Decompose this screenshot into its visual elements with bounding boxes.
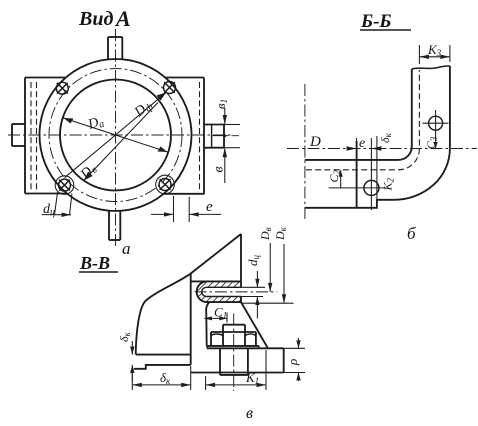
lug hole centerline [195,291,278,293]
svg-text:е: е [359,136,365,151]
vertical pipe left edge [411,69,413,147]
vertical centerline [115,29,117,247]
svg-text:ρ: ρ [285,359,300,366]
pipe break line top [412,66,450,69]
hidden line left 2 [36,82,38,190]
vertical pipe right edge [449,66,451,149]
bolt BL [55,176,74,195]
outer fillet arc [394,149,450,200]
horizontal leg top edge with inner fillet [305,147,412,160]
svg-text:δк: δк [117,331,132,342]
horizontal centerline [8,134,232,136]
svg-text:Dв: Dв [258,227,273,241]
dimension δк left [117,331,135,381]
dimension Дв [241,227,294,303]
lug hatched ring [197,281,241,302]
casing top edge right segment [166,77,204,79]
svg-text:Вид: Вид [78,8,113,30]
bracket left edge [190,274,192,365]
dimension ρ [284,338,305,381]
diameter line Dв [77,103,158,184]
base right edge [283,348,285,372]
hole ext lines right [241,286,265,288]
dimension δк (section) [378,132,393,143]
svg-text:dц: dц [245,255,261,267]
inner wall dashed horizontal [306,70,419,170]
dimension C3 [424,136,439,149]
svg-text:Б-Б: Б-Б [360,11,391,32]
left tab [12,124,25,146]
right edge vertical [240,234,242,281]
casing bottom edge right segment [164,193,205,195]
nut [211,325,256,346]
casing right edge [203,78,205,194]
svg-text:Dк: Dк [273,226,288,241]
svg-text:С2: С2 [327,169,342,182]
svg-text:К3: К3 [427,42,442,58]
neck curve below lug [206,302,209,346]
dimension K3 [419,42,450,64]
bottom tab [109,211,120,240]
diameter line Dф [65,92,167,177]
svg-text:В-В: В-В [79,253,110,273]
flange left face vertical [356,141,358,208]
svg-text:δк: δк [378,132,393,143]
dimension e (section) [357,136,384,176]
dimension C2 [327,169,343,187]
outer contour diagonal [136,234,241,355]
dimension e (view A) [151,196,221,222]
lug right edge segments [240,281,242,287]
svg-text:в: в [246,405,253,422]
svg-text:С3: С3 [424,136,439,149]
diameter line Da [64,114,168,152]
right slope diagonal [241,302,268,347]
dimension dц (B-B) [245,255,261,319]
dimension Дк [273,226,288,303]
title Вид А [78,6,131,31]
casing top edge left segment [25,77,65,79]
bolt TL [56,82,68,94]
right tab [204,125,225,148]
dimension K1 [206,350,266,390]
bolt TR [164,82,176,94]
bolt shaft [220,349,248,375]
svg-text:К2: К2 [381,178,396,192]
dimension C1 [204,305,227,323]
outer circle [40,59,192,211]
wall bottom line [134,365,191,369]
dimension в1 right [211,99,240,148]
dimension δк bottom [132,366,190,390]
svg-text:в: в [212,166,227,172]
hidden line right 1 [199,82,201,190]
hidden line left 1 [30,82,32,190]
lug hole [202,287,241,296]
bolt BR [156,175,175,194]
svg-text:А: А [114,6,131,31]
dimension в right [212,134,228,183]
svg-text:б: б [407,224,416,243]
dimension D arrow [309,134,357,151]
bolt axis centerline [233,314,235,392]
lug outer contour [191,281,241,302]
svg-text:в1: в1 [213,99,229,109]
washer [207,346,259,348]
horizontal leg bottom edge with step [305,200,394,208]
casing bottom edge left segment [25,193,66,195]
wall top line [136,354,191,356]
hole in vertical pipe [422,110,448,137]
bolt circle dash-dot [49,69,182,202]
vertical dash-dot axis [304,84,306,219]
svg-text:δк: δк [160,370,171,386]
svg-text:е: е [206,199,213,215]
svg-text:а: а [122,239,131,258]
horizontal centerline [287,148,477,150]
step / extension vertical [376,136,378,200]
title В-В [79,253,118,273]
base top [207,347,284,349]
svg-text:dц: dц [43,202,55,218]
base bottom [191,372,284,374]
dimension dц leader [42,192,72,218]
inner circle [60,80,171,191]
casing left edge [24,78,26,194]
top tab [108,37,122,59]
svg-text:D: D [309,134,321,150]
hole in flange [329,176,385,210]
title Б-Б [360,11,411,32]
